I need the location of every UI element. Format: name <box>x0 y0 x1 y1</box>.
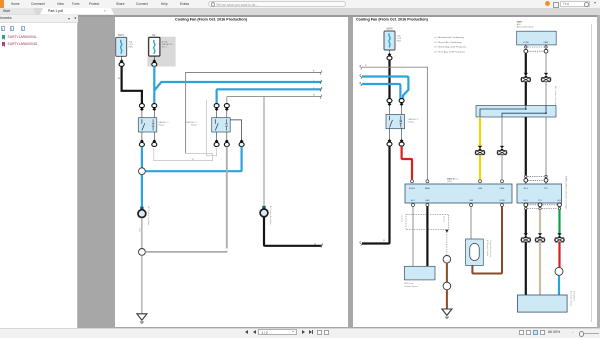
svg-text:MAIN No. 2: MAIN No. 2 <box>447 177 459 180</box>
svg-text:Cooling Fan (From Oct. 2016 Pr: Cooling Fan (From Oct. 2016 Production) <box>356 17 429 21</box>
svg-text:MAIN: MAIN <box>517 21 523 24</box>
svg-text:Amount Assembly: Amount Assembly <box>517 26 535 29</box>
svg-text:FAN: FAN <box>129 46 134 49</box>
svg-text:(J/B): (J/B) <box>447 181 452 183</box>
svg-text:<4 : Manual Air Conditioning: <4 : Manual Air Conditioning <box>434 41 462 44</box>
svg-text:FAN: FAN <box>397 40 402 43</box>
svg-text:A 2 Cooling Fan Motor: A 2 Cooling Fan Motor <box>269 206 272 225</box>
svg-text:W: W <box>192 159 194 161</box>
svg-text:W: W <box>313 95 315 97</box>
svg-text:IG3E: IG3E <box>478 188 483 190</box>
svg-text:Cooling Fan (From Oct. 2016 Pr: Cooling Fan (From Oct. 2016 Production) <box>175 17 248 21</box>
svg-text:<3 : Before Aug. 2019 Producti: <3 : Before Aug. 2019 Production <box>434 46 467 49</box>
svg-text:B28 Crank: B28 Crank <box>404 282 413 285</box>
svg-text:B: B <box>365 65 367 67</box>
svg-text:E4-2: E4-2 <box>558 200 562 202</box>
svg-text:<2 : Automatic Air Conditionin: <2 : Automatic Air Conditioning <box>434 36 465 39</box>
svg-text:Relay: Relay <box>191 125 197 127</box>
svg-text:FAN NO. 2: FAN NO. 2 <box>409 118 420 121</box>
svg-text:BAT1: BAT1 <box>118 34 124 37</box>
svg-text:No.: No. <box>152 34 156 37</box>
svg-text:No. 1 Cable Connector: No. 1 Cable Connector <box>554 86 557 106</box>
svg-text:FAN: FAN <box>426 199 430 202</box>
svg-text:W: W <box>383 240 385 242</box>
svg-text:MAIN: MAIN <box>387 28 393 31</box>
svg-text:Relay Block: Relay Block <box>573 291 575 301</box>
svg-text:A60: A60 <box>517 23 522 26</box>
svg-text:THW: THW <box>469 200 474 202</box>
svg-text:MAIN A CABLE (to Amplifier ass: MAIN A CABLE (to Amplifier assembly) <box>565 176 568 209</box>
svg-text:W-B: W-B <box>138 228 140 232</box>
svg-text:W: W <box>314 244 316 246</box>
svg-text:Ground: Ground <box>443 216 445 222</box>
svg-text:Relay: Relay <box>159 125 165 127</box>
svg-text:A 1 Engine Coolant: A 1 Engine Coolant <box>486 240 489 257</box>
svg-text:PTG: PTG <box>544 188 548 190</box>
svg-text:AC1: AC1 <box>411 199 415 202</box>
svg-text:E4-3: E4-3 <box>524 188 528 190</box>
svg-text:Temperature Sensor: Temperature Sensor <box>489 240 492 257</box>
svg-text:<6 : From Aug. 2019 Production: <6 : From Aug. 2019 Production <box>434 50 466 53</box>
svg-text:ACMG: ACMG <box>409 187 415 190</box>
svg-text:E4-1: E4-1 <box>524 200 528 202</box>
svg-text:FAN NO. 3: FAN NO. 3 <box>186 121 197 124</box>
svg-text:PTG: PTG <box>538 200 542 202</box>
svg-text:Shielded: Shielded <box>402 215 404 222</box>
svg-text:A 1 Cooling Fan Motor: A 1 Cooling Fan Motor <box>147 207 150 226</box>
svg-text:FAN NO. 1: FAN NO. 1 <box>159 121 170 124</box>
svg-text:FANH: FANH <box>425 187 431 190</box>
svg-text:Position Sensor: Position Sensor <box>404 285 418 288</box>
svg-text:CONH: CONH <box>523 42 529 44</box>
svg-text:A C Engine Room: A C Engine Room <box>570 291 573 306</box>
svg-text:CANL: CANL <box>543 41 549 44</box>
svg-text:CANL: CANL <box>499 187 504 190</box>
svg-text:LTHW: LTHW <box>499 200 504 202</box>
svg-text:Relay: Relay <box>409 121 415 123</box>
svg-text:NO. 1: NO. 1 <box>162 47 168 49</box>
